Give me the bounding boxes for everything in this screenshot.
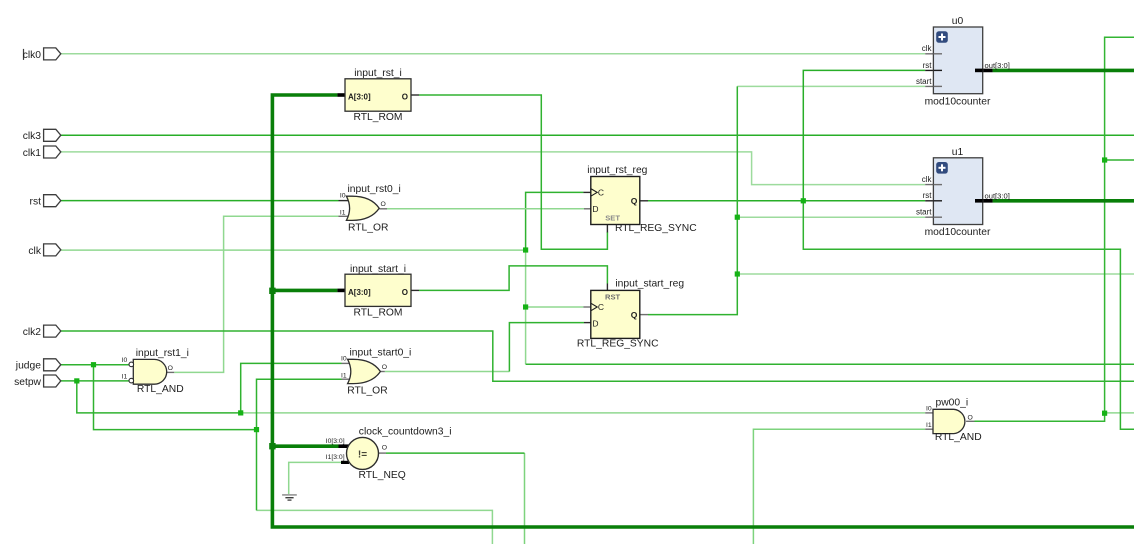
svg-text:clock_countdown3_i: clock_countdown3_i xyxy=(359,426,452,437)
pin stub input_start0_i I1 xyxy=(342,378,351,380)
wire net input_start0 OR output riser to input_start_reg D xyxy=(509,323,584,372)
u1 pin stub interiors xyxy=(933,184,942,186)
black bus pin stub clock_countdown3_i I1[3:0] xyxy=(341,461,349,464)
junction on start net at y=274 xyxy=(735,271,740,276)
caret before clk0 label xyxy=(23,49,25,60)
wire net clk branch to input_start_reg C xyxy=(526,306,584,308)
inverter bubble input_rst1_i I0 xyxy=(129,362,134,367)
pin stub input_rst0_i I1 xyxy=(339,215,350,217)
wire net input_start_reg Q branch to u0.start xyxy=(737,85,925,87)
svg-text:mod10counter: mod10counter xyxy=(925,227,991,238)
wire net clk3 (port clk3 to right edge) xyxy=(61,134,1134,136)
svg-text:O: O xyxy=(968,414,973,421)
svg-text:C: C xyxy=(598,187,604,197)
svg-text:A[3:0]: A[3:0] xyxy=(348,93,371,102)
black bus pin stub u1 out[3:0] xyxy=(975,199,993,203)
wire net input_rst_reg Q rail to u1.rst xyxy=(648,200,925,202)
pin stub input_rst1_i O xyxy=(166,371,174,373)
svg-text:I1: I1 xyxy=(122,373,128,380)
svg-text:RTL_AND: RTL_AND xyxy=(935,432,982,443)
svg-text:I1[3:0]: I1[3:0] xyxy=(326,454,345,461)
pin stub pw00_i O xyxy=(966,420,974,422)
pin stub pw00_i I0 xyxy=(925,412,933,414)
port judge xyxy=(44,359,61,371)
svg-text:I0: I0 xyxy=(926,406,932,413)
u1 expand + icon xyxy=(936,162,948,174)
ROM input_rst_i xyxy=(345,68,411,123)
pin stub input_start_i O xyxy=(411,289,419,291)
svg-text:O: O xyxy=(168,365,173,372)
pin stub u0 clk xyxy=(925,53,942,55)
svg-text:input_start_reg: input_start_reg xyxy=(615,279,684,290)
svg-text:!=: != xyxy=(358,449,367,460)
u0 expand + icon xyxy=(936,31,948,43)
pin stub input_rst0_i I0 xyxy=(339,200,350,202)
junction on setpw net at x=76.8 xyxy=(74,378,79,383)
svg-text:Q: Q xyxy=(631,196,638,206)
bus branch to input_start_i A[3:0] xyxy=(272,289,337,293)
svg-text:O: O xyxy=(402,93,408,102)
register input_rst_reg RTL_REG_SYNC xyxy=(587,165,697,234)
OR gate input_start0_i xyxy=(341,347,411,396)
wire net ground to clock_countdown3_i I1 xyxy=(289,462,342,494)
junction on setpw net at x=240.7 xyxy=(238,410,243,415)
port setpw xyxy=(44,375,61,387)
svg-text:out[3:0]: out[3:0] xyxy=(985,61,1010,70)
junction on pw00 O net at y=160 xyxy=(1102,157,1107,162)
svg-text:I1: I1 xyxy=(340,209,346,216)
black bus pin stub input_rst_i A[3:0] xyxy=(337,93,346,97)
pin stub u1 rst xyxy=(925,200,942,202)
wire net input_start_reg Q branch to u1.start xyxy=(737,216,925,218)
svg-text:I1: I1 xyxy=(341,372,347,379)
wire net clock_countdown3_i O down to bottom edge xyxy=(524,453,526,544)
port clk2 xyxy=(44,325,61,337)
svg-text:I0: I0 xyxy=(340,192,346,199)
register input_start_reg RTL_REG_SYNC xyxy=(577,279,684,350)
wire net clk1 (port clk1 to u1.clk) xyxy=(61,152,925,185)
pin stub input_rst_i O xyxy=(411,94,419,96)
port clk1 xyxy=(44,146,61,158)
port clk3 xyxy=(44,129,61,141)
svg-text:input_rst_i: input_rst_i xyxy=(354,68,402,79)
ground symbol xyxy=(282,495,297,500)
svg-text:Q: Q xyxy=(631,310,638,320)
svg-text:RTL_NEQ: RTL_NEQ xyxy=(359,470,406,481)
port rst xyxy=(44,195,61,207)
wire net clk horizontal from port clk xyxy=(61,249,526,251)
pin stub u1 clk xyxy=(925,184,942,186)
bus net u0 out[3:0] to right edge xyxy=(993,69,1134,73)
AND gate input_rst1_i (inverted inputs) xyxy=(122,348,189,395)
wire net setpw (port to AND I1) xyxy=(61,380,129,382)
pin stub input_rst_reg C xyxy=(583,191,590,193)
wire net setpw riser to OR input_start0_i I0 xyxy=(241,363,342,413)
svg-text:u1: u1 xyxy=(952,147,964,158)
u0 pin stub interiors xyxy=(933,53,942,55)
svg-text:O: O xyxy=(382,364,387,371)
svg-text:input_start_i: input_start_i xyxy=(350,264,406,275)
clock wedge input_rst_reg xyxy=(591,189,597,197)
pin stub input_start0_i I0 xyxy=(342,362,351,364)
module u0 mod10counter xyxy=(916,16,1010,107)
svg-text:clk: clk xyxy=(922,175,933,184)
svg-text:start: start xyxy=(916,208,932,217)
svg-text:input_rst0_i: input_rst0_i xyxy=(348,184,401,195)
svg-text:rst: rst xyxy=(923,191,933,200)
pin stub input_rst_reg SET (black) xyxy=(606,225,608,233)
svg-text:RTL_OR: RTL_OR xyxy=(348,222,388,233)
svg-text:I0[3:0]: I0[3:0] xyxy=(326,438,345,445)
pin stub input_start_reg C xyxy=(583,306,590,308)
svg-text:O: O xyxy=(381,201,386,208)
pin stub input_start_reg Q xyxy=(640,314,648,316)
wire net clk upper branch to input_rst_reg C xyxy=(526,192,584,250)
pin stub input_rst0_i O xyxy=(379,208,387,210)
svg-text:clk0: clk0 xyxy=(23,50,42,61)
wire net rst (port rst to OR input_rst0_i I0) xyxy=(61,200,339,202)
pin stub input_start_reg RST (black) xyxy=(606,284,608,291)
svg-text:O: O xyxy=(382,444,387,451)
pin stub input_rst_reg Q xyxy=(640,200,648,202)
svg-text:clk: clk xyxy=(922,44,933,53)
svg-text:setpw: setpw xyxy=(14,377,41,388)
svg-text:clk: clk xyxy=(28,246,41,257)
wire net input_start_reg Q branch to right edge y=274 xyxy=(737,273,1134,275)
svg-text:pw00_i: pw00_i xyxy=(936,398,969,409)
port clk0 xyxy=(44,48,61,60)
svg-text:RST: RST xyxy=(605,293,621,302)
bus junction at input_start_i A tap xyxy=(269,288,275,294)
wire net input_rst_reg Q riser to u0.rst xyxy=(803,70,925,200)
junction on clk net at y=307 xyxy=(523,304,528,309)
black bus pin stub u0 out[3:0] xyxy=(975,69,993,73)
svg-text:clk1: clk1 xyxy=(23,148,42,159)
svg-text:rst: rst xyxy=(923,61,933,70)
svg-text:mod10counter: mod10counter xyxy=(925,96,991,107)
junction on judge net at x=256.5 xyxy=(254,427,259,432)
svg-text:I0: I0 xyxy=(122,357,128,364)
svg-text:clk2: clk2 xyxy=(23,327,42,338)
svg-text:RTL_OR: RTL_OR xyxy=(347,385,387,396)
svg-text:RTL_ROM: RTL_ROM xyxy=(353,112,402,123)
svg-text:O: O xyxy=(402,288,408,297)
svg-text:u0: u0 xyxy=(952,16,964,27)
svg-text:rst: rst xyxy=(30,197,42,208)
svg-text:input_start0_i: input_start0_i xyxy=(350,347,412,358)
wire net judge bottom segment exiting bottom edge xyxy=(257,510,493,544)
junction on pw00 O net at y=413 xyxy=(1102,411,1107,416)
svg-text:SET: SET xyxy=(605,213,620,222)
OR gate input_rst0_i xyxy=(340,184,401,234)
wire net clock_countdown3_i O horizontal xyxy=(386,452,525,454)
wire net input_rst_reg Q drop and run to right area xyxy=(803,201,1134,429)
pin stub input_start_reg D xyxy=(584,322,591,324)
wire net input_start_i O to input_start_reg RST xyxy=(419,266,607,291)
wire net judge riser to OR input_start0_i I1 xyxy=(257,379,342,510)
pin stub u0 rst xyxy=(925,69,942,71)
bus junction at clock_countdown3_i I0 tap xyxy=(269,443,275,449)
wire net judge vertical drop xyxy=(94,365,257,430)
wire net judge (port to AND I0 and branches) xyxy=(61,364,129,366)
svg-text:clk3: clk3 xyxy=(23,131,42,142)
wire net input_start_reg Q to riser x=737 xyxy=(648,86,737,314)
pin stub input_start0_i O xyxy=(379,371,385,373)
pin stub clock_countdown3_i O xyxy=(379,452,387,454)
wire net input_rst1 (AND output up to OR input_rst0_i I1) xyxy=(174,216,338,372)
wire net input_start0 OR output horizontal xyxy=(385,371,510,373)
pin stub u0 start xyxy=(925,85,942,87)
pin stub u1 start xyxy=(925,216,942,218)
ROM input_start_i xyxy=(345,264,411,319)
wire net setpw long run to pw00_i I0 xyxy=(241,412,926,414)
svg-text:RTL_AND: RTL_AND xyxy=(137,384,184,395)
svg-text:A[3:0]: A[3:0] xyxy=(348,288,371,297)
AND gate pw00_i xyxy=(926,398,982,443)
wire net pw00_i O riser and top branch to right edge xyxy=(975,37,1134,421)
bus branch to clock_countdown3_i I0[3:0] xyxy=(272,444,338,448)
wire net clk lower branch to right edge xyxy=(526,363,1134,365)
bus net clock trunk (corner at top to input_rst_i A, down, corner at bottom to right edge) xyxy=(272,95,1134,527)
pin stub pw00_i I1 xyxy=(925,428,933,430)
svg-text:input_rst_reg: input_rst_reg xyxy=(587,165,647,176)
clock wedge input_start_reg xyxy=(591,303,597,311)
svg-text:judge: judge xyxy=(15,361,41,372)
black bus pin stub input_start_i A[3:0] xyxy=(337,289,346,293)
NEQ gate clock_countdown3_i xyxy=(326,426,452,481)
svg-text:out[3:0]: out[3:0] xyxy=(985,191,1010,200)
wire net clk vertical mid segment xyxy=(525,250,527,364)
inverter bubble input_rst1_i I1 xyxy=(129,378,134,383)
svg-text:RTL_REG_SYNC: RTL_REG_SYNC xyxy=(615,223,697,234)
svg-text:I0: I0 xyxy=(341,356,347,363)
svg-text:input_rst1_i: input_rst1_i xyxy=(136,348,189,359)
port clk xyxy=(44,244,61,256)
wire net clk2 (port clk2 to right edge) xyxy=(61,331,1134,381)
module u1 mod10counter xyxy=(916,147,1010,238)
wire net pw00_i I1 from bottom edge xyxy=(753,429,925,544)
junction on start net at y=217 xyxy=(735,215,740,220)
svg-text:start: start xyxy=(916,77,932,86)
bus net u1 out[3:0] to right edge xyxy=(993,199,1134,203)
wire net clk0 (port clk0 to u0.clk) xyxy=(61,53,925,55)
wire net setpw vertical drop xyxy=(77,381,241,413)
svg-text:RTL_ROM: RTL_ROM xyxy=(353,308,402,319)
junction on rst_reg Q net at x=803 xyxy=(801,198,806,203)
svg-text:C: C xyxy=(598,302,604,312)
svg-text:D: D xyxy=(592,318,598,328)
svg-text:I1: I1 xyxy=(926,422,932,429)
wire net input_rst_i O to input_rst_reg SET xyxy=(419,95,607,249)
wire net pw00_i O branch to right edge y=413 xyxy=(1105,412,1134,414)
junction on clk net at y=250 xyxy=(523,247,528,252)
svg-text:D: D xyxy=(592,204,598,214)
black bus pin stub clock_countdown3_i I0[3:0] xyxy=(339,444,350,448)
junction on judge net at x=93.5 xyxy=(91,362,96,367)
pin stub input_rst_reg D xyxy=(584,208,591,210)
svg-text:RTL_REG_SYNC: RTL_REG_SYNC xyxy=(577,339,659,350)
wire net input_rst0 (OR output to input_rst_reg D) xyxy=(387,208,584,210)
wire net pw00_i O branch to right edge y=160 xyxy=(1105,159,1134,161)
